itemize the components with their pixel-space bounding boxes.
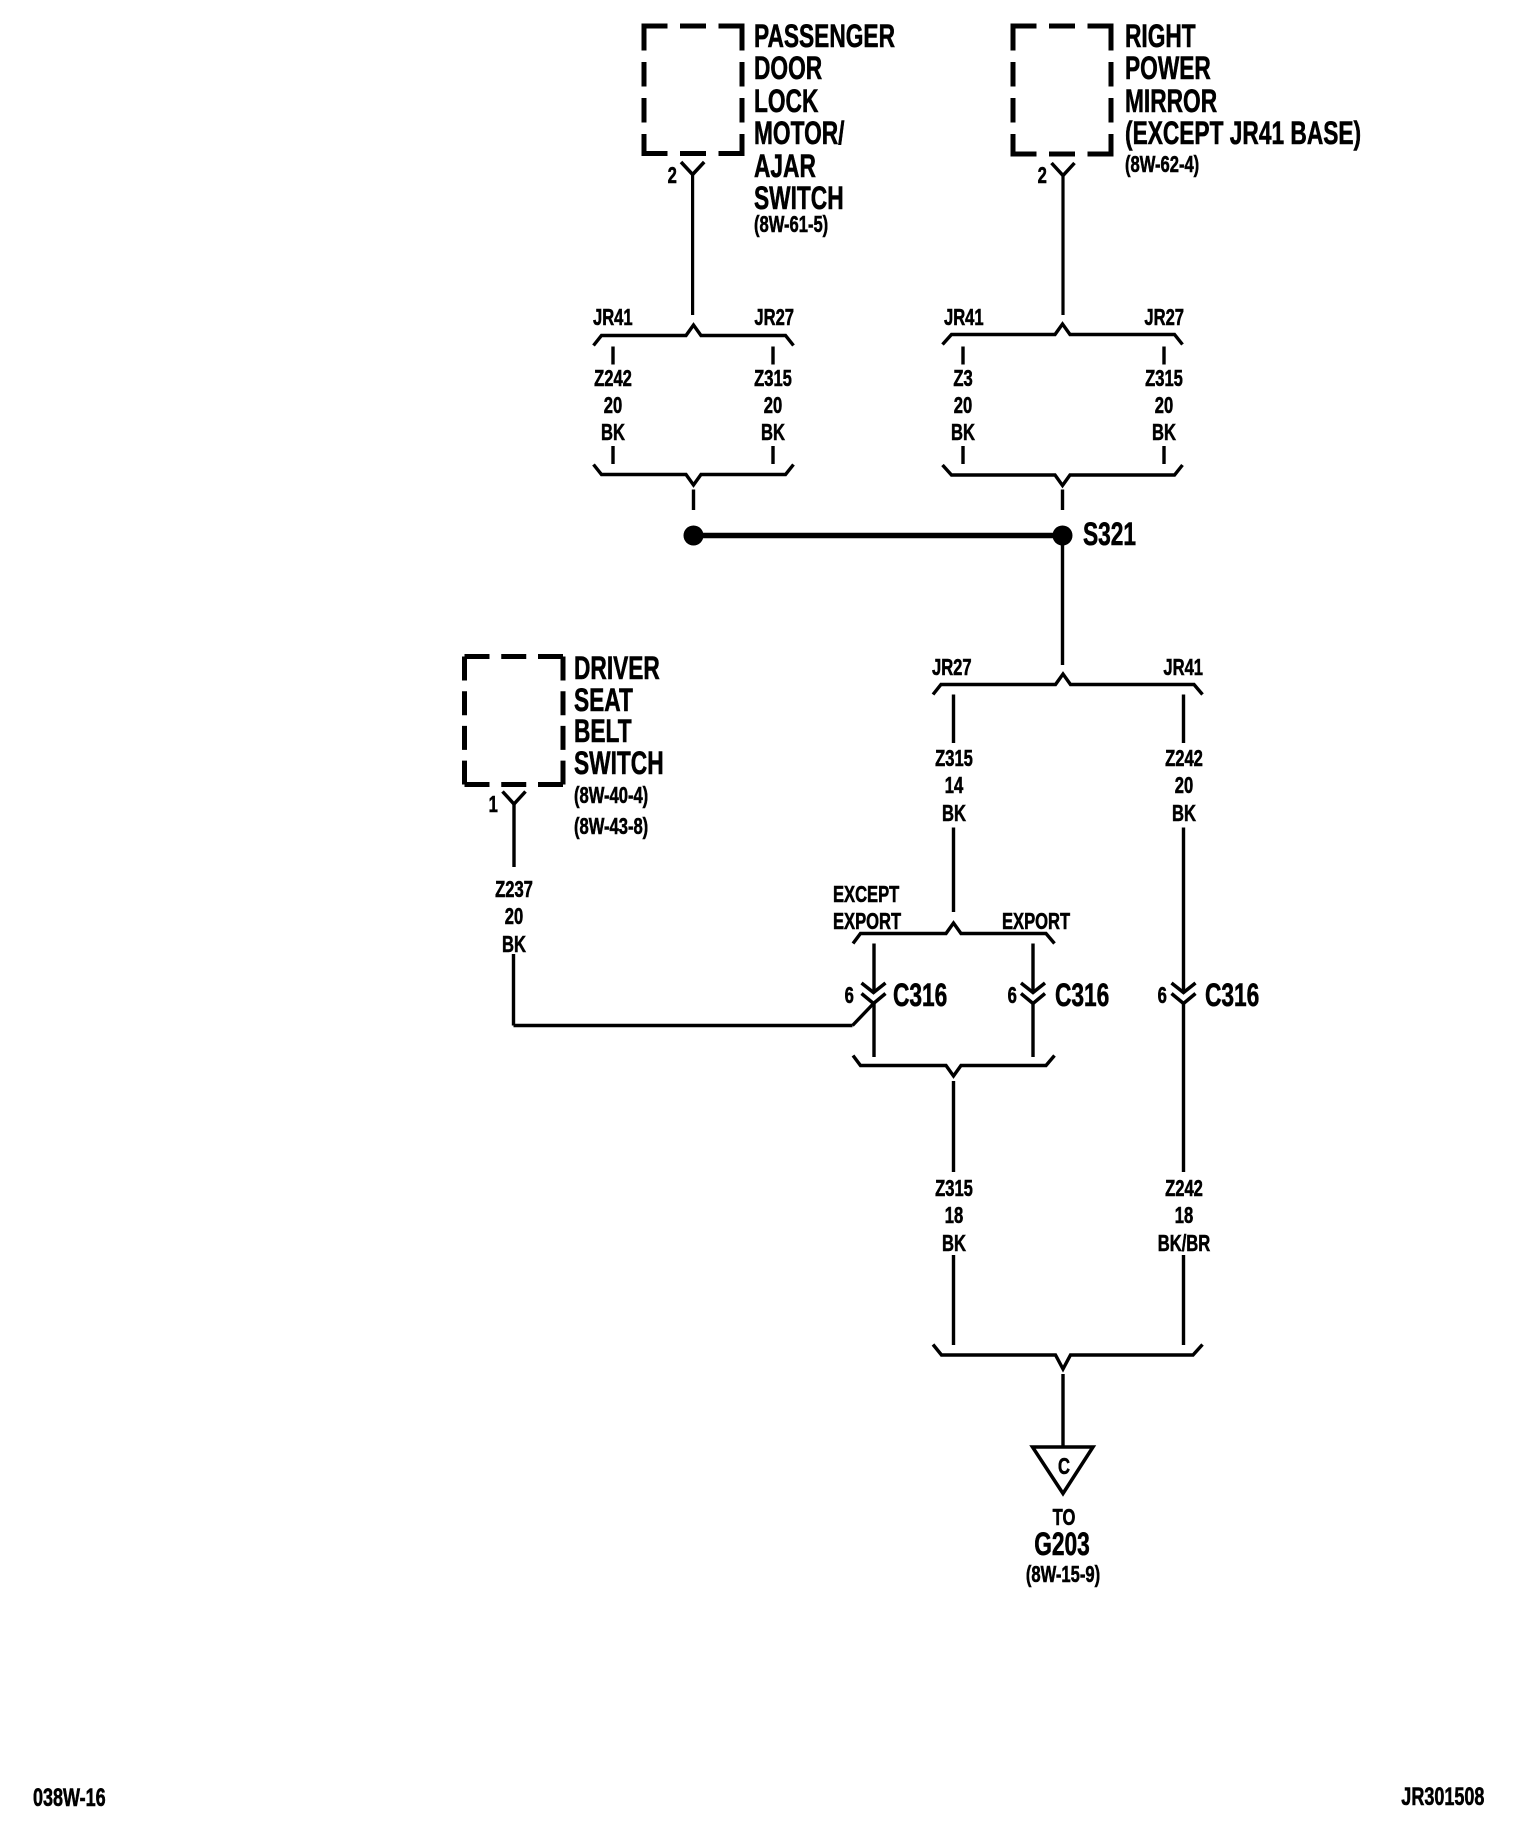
wire stub above left splice dot	[692, 490, 695, 511]
connector label C316 (left)	[893, 979, 947, 1011]
component box PASSENGER DOOR LOCK MOTOR/AJAR SWITCH (dashed)	[642, 26, 745, 154]
wire Z242 20 BK lower segment down to C316	[1182, 828, 1185, 993]
merge brace under Z242/Z315 branches	[594, 465, 794, 486]
wire label Z3 20 BK	[891, 367, 1035, 390]
wire label Z242 20 BK	[541, 367, 685, 390]
reference (8W-15-9)	[991, 1563, 1135, 1586]
wire export branch above C316	[1031, 944, 1034, 993]
sheet number 038W-16	[33, 1786, 106, 1811]
label RIGHT POWER MIRROR (EXCEPT JR41 BASE)	[1125, 20, 1196, 52]
wire from mirror pin 2 down to splice brace	[1061, 176, 1064, 316]
wire stub Z3 branch lower	[961, 446, 964, 464]
connector C316 except-export chevrons	[862, 983, 886, 1004]
component box RIGHT POWER MIRROR (dashed)	[1011, 26, 1114, 154]
wire label Z237 20 BK	[442, 878, 586, 901]
label DRIVER SEAT BELT SWITCH	[574, 652, 660, 684]
pin number 2 passenger	[668, 164, 677, 187]
label PASSENGER DOOR LOCK MOTOR/AJAR SWITCH	[754, 20, 895, 52]
wire from S321 down to JR27/JR41 split	[1061, 545, 1064, 665]
branch label EXPORT	[1002, 910, 1070, 933]
branch label EXCEPT EXPORT	[833, 883, 899, 906]
wire from seat belt pin 1 down	[512, 804, 515, 867]
wire stub above splice S321 dot	[1061, 490, 1064, 511]
wire except-export branch above C316	[872, 944, 875, 993]
node JR41 (left splice)	[593, 306, 633, 329]
pin number 2 mirror	[1038, 164, 1047, 187]
wire JR41 branch upper segment	[1182, 695, 1185, 744]
wire Z237 diagonal joining C316	[853, 1004, 874, 1026]
connector C letter	[992, 1455, 1136, 1478]
wire label Z315 18 BK	[882, 1177, 1026, 1200]
node JR27 (lower split)	[932, 656, 972, 679]
junction dot left of splice S321	[684, 526, 704, 546]
wire stub Z315 branch lower	[771, 446, 774, 464]
node JR41 (lower split)	[1163, 656, 1203, 679]
component box DRIVER SEAT BELT SWITCH (dashed)	[465, 657, 564, 785]
drawing number JR301508	[1401, 1785, 1484, 1810]
node JR27 (left splice)	[754, 306, 794, 329]
reference (8W-40-4)	[574, 784, 648, 807]
split brace JR41/JR27 under passenger door wire	[594, 325, 794, 346]
merge brace under C316 pair	[853, 1056, 1055, 1077]
pin 6 of middle C316	[1008, 984, 1017, 1007]
reference (8W-61-5)	[754, 213, 828, 236]
wire JR27 branch upper segment	[952, 695, 955, 744]
wire stub Z3 branch upper	[961, 347, 964, 365]
ground label G203	[991, 1528, 1133, 1560]
wire stub Z315 branch upper	[771, 347, 774, 365]
wire label Z315 20 BK (mirror)	[1092, 367, 1236, 390]
reference (8W-43-8)	[574, 815, 648, 838]
junction dot of splice S321	[1053, 526, 1073, 546]
connector C316 export chevrons	[1021, 983, 1045, 1004]
merge brace under Z3/Z315 branches	[943, 465, 1183, 486]
off-page connector triangle C	[1033, 1447, 1094, 1494]
wire stub Z242 branch upper	[611, 347, 614, 365]
connector C316 right chevrons	[1172, 983, 1196, 1004]
connector label C316 (right)	[1205, 979, 1259, 1011]
wire export branch below C316	[1031, 1004, 1034, 1058]
connector label C316 (middle)	[1055, 979, 1109, 1011]
wire from final merge down to connector C	[1061, 1374, 1064, 1446]
pin 1 arrow of driver seat belt switch	[503, 792, 526, 805]
splice label S321	[1083, 518, 1136, 550]
wire stub Z315 mirror branch upper	[1162, 347, 1165, 365]
splice bus wire S321	[694, 533, 1063, 539]
split brace EXCEPT EXPORT / EXPORT	[853, 923, 1055, 944]
pin 2 arrow of right power mirror	[1052, 163, 1075, 176]
wire from passenger door pin 2 down to splice brace	[691, 175, 694, 316]
node JR27 (right splice)	[1144, 306, 1184, 329]
wire label Z242 18 BK/BR	[1112, 1177, 1256, 1200]
pin 6 of left C316	[845, 984, 854, 1007]
node JR41 (right splice)	[944, 306, 984, 329]
wire below C316 merge with Z315 18 BK label	[952, 1081, 955, 1172]
split brace JR27/JR41 below S321	[933, 674, 1203, 695]
split brace JR41/JR27 under mirror wire	[943, 324, 1183, 345]
label TO	[992, 1506, 1136, 1529]
wire except-export branch below C316	[872, 1004, 875, 1058]
reference (8W-62-4)	[1125, 153, 1199, 176]
wire Z315 18 BK lower segment	[952, 1255, 955, 1345]
pin 6 of right C316	[1158, 984, 1167, 1007]
wire Z237 20 BK vertical segment	[512, 954, 515, 1026]
wire label Z242 20 BK (right branch)	[1112, 747, 1256, 770]
wire below right C316 with Z242 18 BK/BR label	[1182, 1004, 1185, 1173]
wire Z237 horizontal run to C316	[514, 1024, 853, 1027]
wire stub Z242 branch lower	[611, 446, 614, 464]
wire Z315 14 BK lower segment	[952, 828, 955, 913]
wire Z242 18 BK/BR lower segment	[1182, 1255, 1185, 1345]
pin 2 arrow of passenger door lock motor	[681, 162, 704, 175]
wire stub Z315 mirror branch lower	[1162, 446, 1165, 464]
wire label Z315 20 BK	[701, 367, 845, 390]
final merge brace to ground lead	[933, 1345, 1203, 1370]
wire label Z315 14 BK	[882, 747, 1026, 770]
pin number 1 seat belt switch	[489, 793, 498, 816]
